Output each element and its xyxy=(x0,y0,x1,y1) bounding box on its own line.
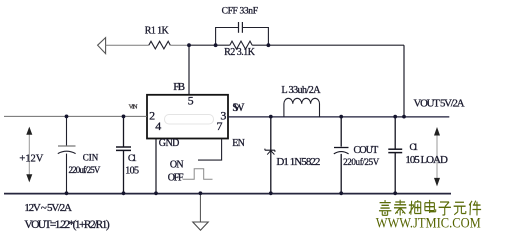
svg-text:4: 4 xyxy=(155,119,161,133)
svg-text:105: 105 xyxy=(125,166,139,177)
svg-text:VOUT=1.22*(1+R2/R1): VOUT=1.22*(1+R2/R1) xyxy=(24,219,109,231)
svg-text:12V ~ 5V/2A: 12V ~ 5V/2A xyxy=(24,202,72,214)
svg-text:EN: EN xyxy=(232,138,245,149)
svg-text:CFF 33nF: CFF 33nF xyxy=(222,7,258,17)
svg-text:220uf/25V: 220uf/25V xyxy=(343,157,380,167)
svg-text:L 33uh/2A: L 33uh/2A xyxy=(281,85,321,96)
svg-text:CIN: CIN xyxy=(83,152,99,162)
svg-text:VOUT 5V/2A: VOUT 5V/2A xyxy=(414,98,465,110)
svg-text:VIN: VIN xyxy=(129,103,138,110)
svg-text:WWW.JTMIC.COM: WWW.JTMIC.COM xyxy=(376,216,481,232)
svg-text:SW: SW xyxy=(232,102,244,114)
svg-text:105 LOAD: 105 LOAD xyxy=(405,154,448,166)
svg-text:OFF: OFF xyxy=(168,172,184,183)
svg-text:+12V: +12V xyxy=(19,153,43,164)
svg-text:C1: C1 xyxy=(410,143,419,153)
svg-text:D1 1N5822: D1 1N5822 xyxy=(276,156,320,168)
svg-text:R2 3.1K: R2 3.1K xyxy=(224,47,256,58)
svg-text:R1 1K: R1 1K xyxy=(145,26,170,37)
svg-text:ON: ON xyxy=(170,159,184,170)
svg-text:COUT: COUT xyxy=(354,145,379,156)
svg-text:FB: FB xyxy=(173,81,185,93)
svg-text:5: 5 xyxy=(188,94,194,108)
svg-text:C1: C1 xyxy=(128,154,137,164)
svg-text:2: 2 xyxy=(149,109,155,123)
svg-text:7: 7 xyxy=(217,119,223,133)
svg-text:GND: GND xyxy=(159,138,180,149)
svg-text:220uf/25V: 220uf/25V xyxy=(69,165,101,175)
